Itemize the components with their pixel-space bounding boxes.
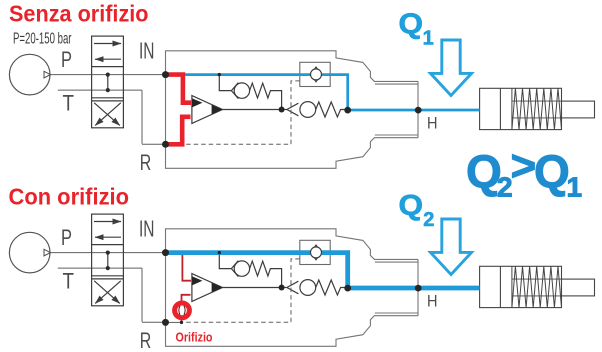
svg-text:Senza orifizio: Senza orifizio	[9, 1, 149, 27]
svg-text:Con orifizio: Con orifizio	[9, 184, 130, 210]
svg-text:1: 1	[567, 172, 583, 203]
svg-text:Orifizio: Orifizio	[176, 330, 213, 344]
svg-text:2: 2	[423, 209, 434, 231]
svg-text:Q: Q	[399, 190, 424, 222]
svg-text:Q: Q	[534, 146, 570, 198]
svg-text:P=20-150 bar: P=20-150 bar	[13, 30, 72, 47]
svg-text:>: >	[511, 142, 537, 191]
svg-text:1: 1	[423, 27, 434, 49]
svg-text:Q: Q	[399, 9, 424, 41]
